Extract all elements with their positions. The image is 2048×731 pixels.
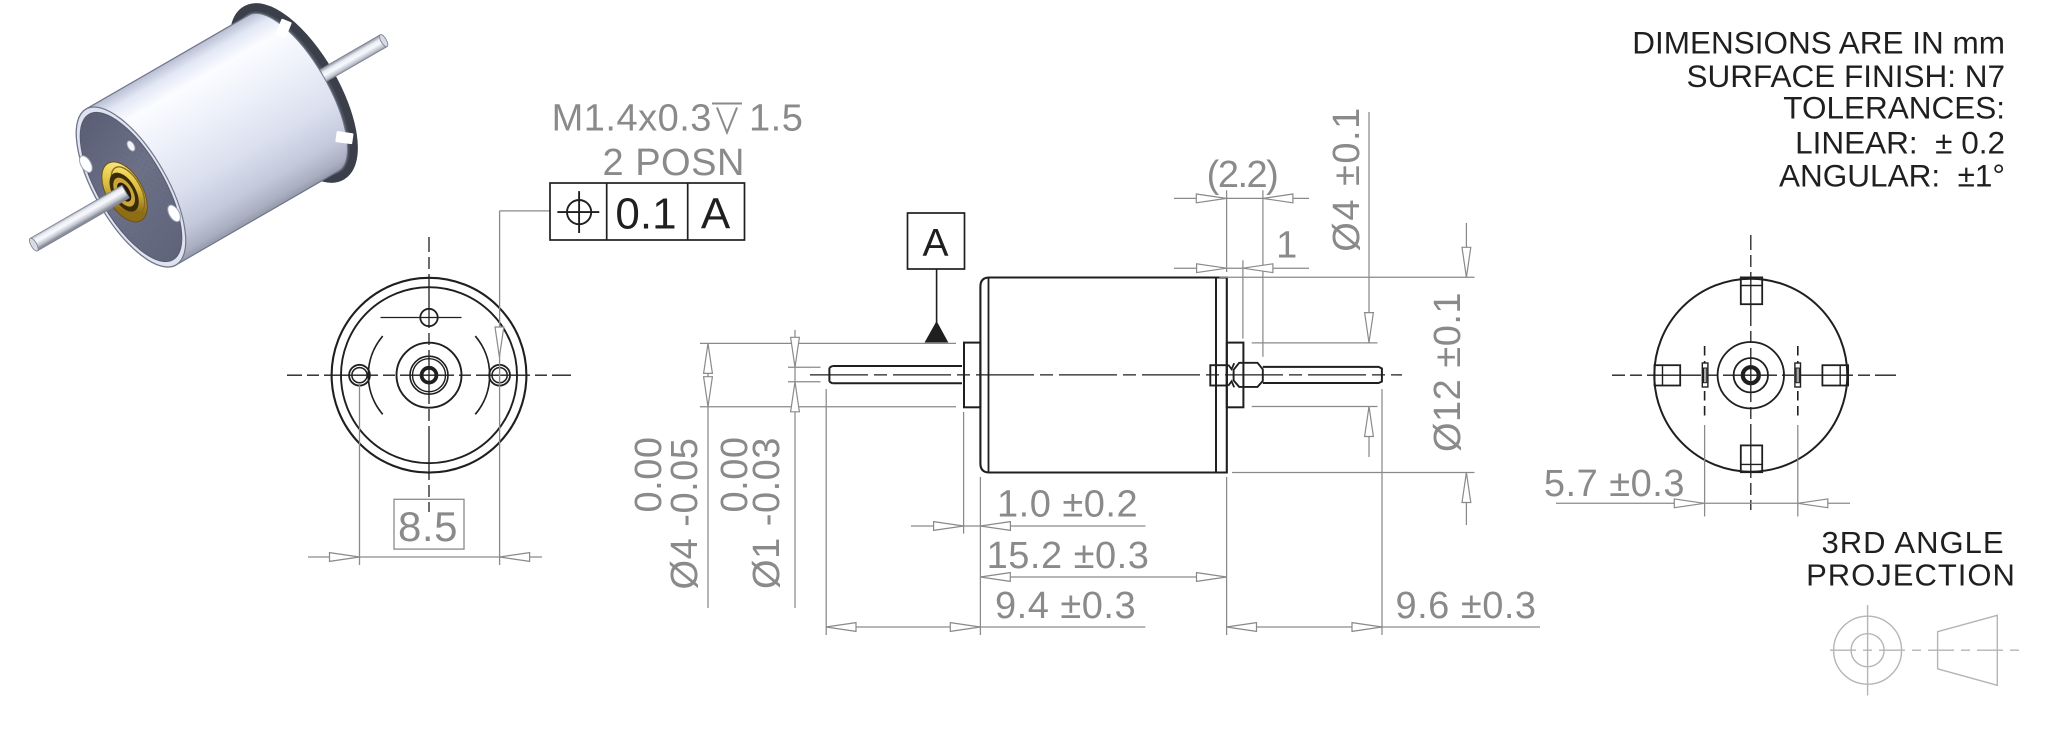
svg-text:3RD ANGLE: 3RD ANGLE — [1821, 525, 2004, 560]
svg-text:A: A — [701, 190, 731, 239]
svg-text:ANGULAR: ±1°: ANGULAR: ±1° — [1779, 158, 2005, 194]
svg-text:LINEAR: ± 0.2: LINEAR: ± 0.2 — [1795, 124, 2005, 160]
svg-text:5.7 ±0.3: 5.7 ±0.3 — [1544, 463, 1685, 505]
svg-text:A: A — [922, 222, 948, 265]
svg-text:DIMENSIONS ARE IN mm: DIMENSIONS ARE IN mm — [1632, 25, 2005, 61]
svg-text:Ø4 -0.05: Ø4 -0.05 — [664, 438, 706, 590]
svg-text:TOLERANCES:: TOLERANCES: — [1783, 90, 2005, 126]
svg-text:9.6 ±0.3: 9.6 ±0.3 — [1395, 585, 1536, 627]
svg-text:SURFACE FINISH: N7: SURFACE FINISH: N7 — [1686, 58, 2005, 94]
svg-text:2 POSN: 2 POSN — [603, 142, 745, 184]
svg-text:1.5: 1.5 — [749, 98, 803, 140]
svg-text:1: 1 — [1276, 225, 1298, 267]
svg-text:Ø1 -0.03: Ø1 -0.03 — [746, 437, 788, 589]
svg-text:Ø4 ±0.1: Ø4 ±0.1 — [1326, 106, 1368, 251]
svg-text:1.0 ±0.2: 1.0 ±0.2 — [997, 484, 1138, 526]
svg-text:Ø12 ±0.1: Ø12 ±0.1 — [1427, 292, 1469, 452]
svg-text:(2.2): (2.2) — [1207, 154, 1278, 196]
svg-text:9.4 ±0.3: 9.4 ±0.3 — [995, 585, 1136, 627]
svg-text:PROJECTION: PROJECTION — [1806, 558, 2016, 593]
svg-text:8.5: 8.5 — [398, 503, 458, 550]
svg-text:0.1: 0.1 — [615, 190, 676, 239]
svg-text:M1.4x0.3: M1.4x0.3 — [552, 98, 712, 140]
svg-text:15.2 ±0.3: 15.2 ±0.3 — [987, 535, 1150, 577]
